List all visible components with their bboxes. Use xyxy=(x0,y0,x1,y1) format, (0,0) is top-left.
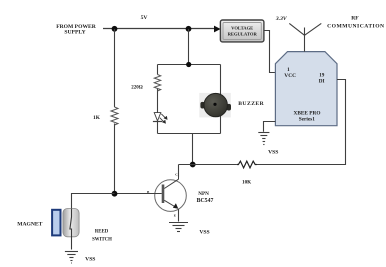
svg-text:10K: 10K xyxy=(242,179,251,185)
svg-text:VSS: VSS xyxy=(268,150,278,156)
transistor Q1 xyxy=(147,165,186,222)
resistor R1 1K xyxy=(93,107,118,125)
svg-text:COMMUNICATION: COMMUNICATION xyxy=(327,24,384,30)
LED D1 xyxy=(153,113,168,134)
svg-text:C: C xyxy=(175,172,178,176)
wire J2 down to LED/buzzer block xyxy=(188,29,190,65)
svg-text:VCC: VCC xyxy=(284,73,296,79)
svg-text:SUPPLY: SUPPLY xyxy=(64,29,85,35)
ground GND2 (emitter) xyxy=(169,223,188,232)
node junction J2 (regulator branch) xyxy=(186,26,192,32)
svg-text:RF: RF xyxy=(351,16,359,22)
wire base rail xyxy=(115,193,162,195)
wire block top rail xyxy=(158,64,221,66)
svg-text:Series1: Series1 xyxy=(299,117,316,123)
svg-text:REED: REED xyxy=(95,229,109,234)
svg-text:NPN: NPN xyxy=(198,191,209,197)
svg-text:3.3V: 3.3V xyxy=(275,16,288,22)
wire base node to reed switch xyxy=(72,194,115,209)
label NPN BC547 xyxy=(197,191,214,204)
svg-text:220Ω: 220Ω xyxy=(131,86,143,91)
wire XBee VSS pin to ground xyxy=(264,122,276,132)
ground GND1 (XBee VSS) xyxy=(258,133,269,145)
svg-text:VSS: VSS xyxy=(85,257,95,263)
svg-text:E: E xyxy=(174,214,177,218)
label REED SWITCH xyxy=(92,229,112,242)
wire 1K branch vertical xyxy=(114,29,116,194)
label FROM POWER SUPPLY xyxy=(56,24,97,35)
antenna xyxy=(289,23,321,51)
node junction J1 (1K branch) xyxy=(112,26,118,32)
svg-text:MAGNET: MAGNET xyxy=(17,221,42,227)
svg-text:DI: DI xyxy=(319,79,325,85)
ground GND3 (reed switch) xyxy=(65,252,78,264)
svg-text:REGULATOR: REGULATOR xyxy=(228,32,258,37)
node junction J3 (block top) xyxy=(186,62,191,67)
wire regulator output to XBee VCC pin xyxy=(264,31,276,73)
wire collector rail xyxy=(179,165,237,178)
resistor R3 10K xyxy=(237,161,257,185)
svg-text:1K: 1K xyxy=(93,115,101,121)
node junction J4 (collector) xyxy=(190,162,196,168)
XBee module U1 xyxy=(275,52,337,126)
resistor R2 220 ohm xyxy=(131,65,160,113)
wire 5V rail xyxy=(103,28,215,30)
svg-text:VOLTAGE: VOLTAGE xyxy=(231,26,253,31)
buzzer LS1 xyxy=(199,65,231,134)
svg-text:BC547: BC547 xyxy=(197,198,214,204)
svg-text:5V: 5V xyxy=(141,15,148,21)
wire bottom rail to collector node xyxy=(192,134,194,165)
node junction J5 (base / reed) xyxy=(112,191,118,197)
arrow into regulator xyxy=(214,26,221,33)
voltage regulator U2 xyxy=(220,20,264,42)
label RF COMMUNICATION xyxy=(327,16,384,30)
wire block bottom rail xyxy=(158,133,221,135)
magnet xyxy=(52,210,60,236)
svg-text:BUZZER: BUZZER xyxy=(238,101,264,107)
wire XBee DI pin to 10K resistor xyxy=(256,80,345,165)
svg-text:XBEE PRO: XBEE PRO xyxy=(294,110,321,116)
svg-text:VSS: VSS xyxy=(199,230,209,236)
svg-text:SWITCH: SWITCH xyxy=(92,237,112,242)
reed switch SW1 xyxy=(63,209,79,250)
